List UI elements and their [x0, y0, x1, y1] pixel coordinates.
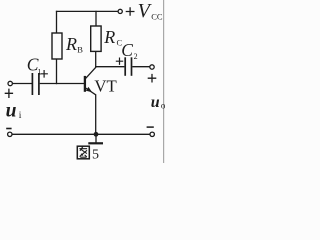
terminal output bottom	[150, 132, 154, 136]
wire: bottom rail	[12, 133, 150, 135]
transistor VT	[84, 76, 86, 92]
wire: C1 to base	[40, 83, 85, 85]
wire: emitter down	[95, 94, 97, 134]
plus at input	[5, 89, 13, 98]
svg-text:R: R	[103, 27, 115, 47]
minus at input bottom	[6, 128, 11, 130]
wire: top rail to RB	[56, 11, 58, 34]
plus right of C1	[40, 70, 48, 78]
terminal output top	[150, 65, 154, 69]
resistor RB	[52, 33, 62, 59]
svg-text:VT: VT	[94, 76, 116, 95]
wire: RB bottom lead	[56, 59, 58, 84]
svg-text:R: R	[65, 34, 77, 54]
svg-text:u: u	[151, 94, 160, 111]
minus at output bottom	[147, 126, 154, 128]
terminal +Vcc	[118, 9, 122, 13]
right page border line	[163, 0, 165, 163]
caption: 图 5 (tu glyph drawn as paths)	[77, 146, 89, 159]
ground	[95, 134, 97, 142]
label +Vcc	[126, 7, 135, 16]
wire: C2 to output	[132, 66, 149, 68]
wire: top rail	[56, 10, 118, 12]
svg-text:B: B	[77, 45, 83, 55]
capacitor C1	[31, 73, 33, 95]
wire: input to C1	[13, 83, 33, 85]
wire: top rail to RC	[95, 11, 97, 27]
svg-text:2: 2	[134, 52, 138, 61]
svg-text:CC: CC	[151, 11, 163, 21]
svg-text:o: o	[161, 101, 166, 111]
wire: collector node to C2	[95, 66, 124, 68]
junction dot emitter/ground	[94, 132, 99, 137]
plus below output	[148, 74, 157, 83]
capacitor C2	[124, 57, 126, 76]
plus left of C2	[116, 58, 123, 65]
svg-text:5: 5	[92, 148, 99, 163]
svg-text:i: i	[19, 111, 22, 121]
wire: RC bottom lead (collector)	[95, 51, 97, 67]
svg-text:1: 1	[38, 68, 42, 77]
svg-text:u: u	[6, 100, 17, 121]
terminal input bottom	[8, 132, 12, 136]
resistor RC	[91, 26, 101, 51]
svg-text:C: C	[121, 40, 133, 60]
terminal input top	[8, 81, 12, 85]
